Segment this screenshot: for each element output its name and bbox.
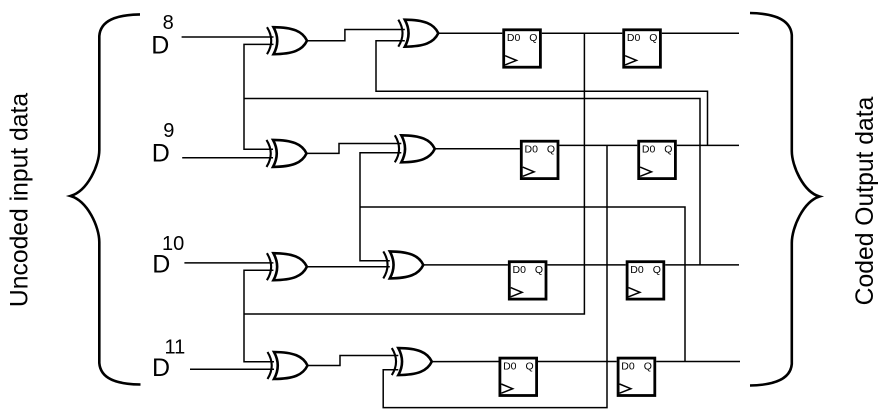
- svg-text:8: 8: [163, 12, 174, 34]
- xor gate B1 (row 2, stage 1): [267, 140, 307, 167]
- xor gate C1 (row 3, stage 1): [267, 253, 307, 280]
- svg-text:10: 10: [162, 233, 184, 255]
- wire: D8 input line: [182, 36, 274, 38]
- flip-flop FF D1 (row 4, stage 1): [500, 358, 537, 395]
- svg-text:Uncoded input data: Uncoded input data: [7, 93, 34, 307]
- flip-flop FF A2 (row 1, stage 2): [624, 30, 661, 67]
- svg-text:9: 9: [163, 120, 174, 142]
- label D^8: [151, 12, 173, 59]
- xor gate D2 (row 4, stage 2): [392, 348, 432, 375]
- xor gate D1 (row 4, stage 1): [268, 352, 308, 379]
- wire: XOR B1 output jog to XOR B2: [308, 144, 402, 154]
- wire: feedback from row-3 output to rows 1-2 chain (node B): [244, 99, 700, 265]
- right brace: [750, 13, 820, 386]
- label D^11: [152, 336, 185, 382]
- wire: tap from row-2 FF junction to XOR D2 lower input (node F): [383, 145, 607, 407]
- wire: D11 input line: [190, 368, 274, 370]
- wire: XOR C1 output to XOR C2: [308, 266, 390, 268]
- svg-text:Coded Output data: Coded Output data: [852, 96, 879, 305]
- wire: row-3 coded output: [665, 264, 739, 266]
- label D^10: [152, 233, 184, 279]
- svg-text:D: D: [151, 32, 169, 60]
- xor gate C2 (row 3, stage 2): [383, 251, 423, 278]
- wire: D10 input line: [184, 262, 273, 264]
- flip-flop FF D2 (row 4, stage 2): [618, 358, 655, 395]
- svg-text:D: D: [152, 139, 170, 167]
- flip-flop FF B2 (row 2, stage 2): [639, 141, 676, 178]
- wire: XOR B2 output to FF B1: [435, 148, 520, 150]
- wire: XOR A2 output to FF A1: [437, 32, 502, 34]
- wire: FF A1 to FF A2: [542, 32, 623, 34]
- wire: XOR A1 output jog to XOR A2: [308, 30, 405, 41]
- wire: shared input chain rows 3-4 (node G): [244, 270, 274, 361]
- wire: node E branch to row-4 output: [360, 207, 685, 362]
- wire: row-4 coded output: [656, 361, 740, 363]
- wire: row-1 coded output: [662, 32, 739, 34]
- wire: FF C1 to FF C2: [547, 264, 625, 266]
- svg-text:11: 11: [165, 336, 186, 358]
- flip-flop FF B1 (row 2, stage 1): [521, 141, 558, 178]
- wire: shared input chain rows 1-2 (node A): [244, 44, 274, 149]
- wire: tap from row-1 FF junction to rows 3-4 chain (node D): [244, 33, 584, 314]
- xor gate A1 (row 1, stage 1): [267, 27, 307, 54]
- wire: FF D1 to FF D2: [538, 361, 617, 363]
- flip-flop FF A1 (row 1, stage 1): [504, 30, 541, 67]
- wire: FF B1 to FF B2: [559, 144, 637, 146]
- wire: XOR A2 lower input from row-2 output (node C): [376, 41, 708, 146]
- wire: XOR C2 output to FF C1: [423, 264, 508, 266]
- wire: XOR D1 output jog to XOR D2: [308, 356, 399, 366]
- wire: XOR B2 lower input chain from row-4 output (node E): [360, 153, 401, 261]
- flip-flop FF C1 (row 3, stage 1): [509, 262, 546, 299]
- wire: D9 input line: [182, 157, 273, 159]
- xor gate A2 (row 1, stage 2): [398, 20, 438, 47]
- left brace: [71, 14, 141, 384]
- label D^9: [152, 120, 175, 167]
- wire: XOR D2 output to FF D1: [432, 361, 499, 363]
- wire: row-2 coded output: [677, 144, 739, 146]
- xor gate B2 (row 2, stage 2): [395, 135, 435, 162]
- flip-flop FF C2 (row 3, stage 2): [627, 262, 664, 299]
